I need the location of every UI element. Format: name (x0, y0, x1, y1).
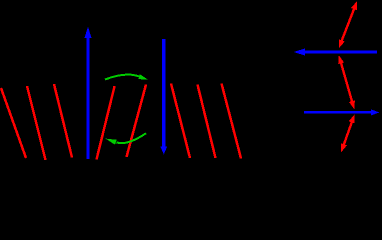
wavefront incident 2 (27, 86, 46, 160)
wavefront incident 3 (54, 84, 72, 158)
red double arrow lower right (341, 114, 355, 152)
wavefront transmitted 1 (171, 84, 190, 159)
blue arrow pointing right (bottom right) (304, 109, 380, 115)
wavefront middle 1 (97, 86, 115, 160)
wavefront middle 2 (127, 85, 147, 158)
wavefront transmitted 3 (222, 84, 242, 159)
blue arrow pointing left (top right) (294, 49, 378, 56)
red double arrow upper right (339, 1, 357, 48)
upward blue arrow (left boundary) (85, 27, 92, 160)
red double arrow middle right (338, 55, 355, 109)
green rotation arrow bottom (106, 133, 147, 144)
downward blue arrow (right boundary) (160, 39, 167, 155)
green rotation arrow top (105, 74, 148, 79)
wavefront incident 1 (1, 88, 26, 158)
wavefront transmitted 2 (198, 85, 216, 159)
